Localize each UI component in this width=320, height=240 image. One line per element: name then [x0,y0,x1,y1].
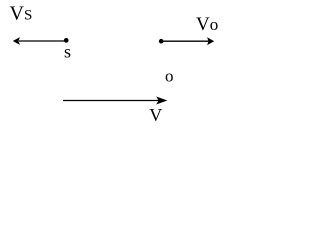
svg-text:VS: VS [10,3,33,25]
node s dot [64,38,69,43]
wire: observer velocity arrow shaft [161,40,209,42]
svg-text:o: o [165,67,174,86]
node o dot [159,39,164,44]
arrowhead (left, source velocity) [13,37,20,45]
arrowhead (right, observer velocity) [207,37,214,45]
arrowhead (right, wave velocity) [156,97,167,105]
wire: source velocity arrow shaft [19,40,66,42]
svg-text:Vo: Vo [196,14,218,35]
svg-text:s: s [64,42,71,62]
wire: wave velocity arrow shaft [63,100,159,102]
svg-text:V: V [149,105,162,125]
